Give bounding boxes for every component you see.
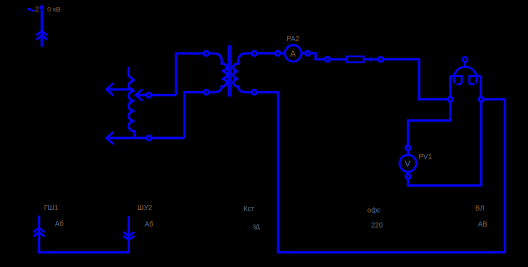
right current arrow (down) (123, 216, 134, 252)
voltmeter PV circle (400, 155, 417, 172)
ammeter left terminal ring (276, 51, 281, 56)
wire after resistor (364, 58, 379, 60)
left current arrow (up) (33, 216, 44, 252)
terminal ring on bottom lead (147, 136, 152, 141)
wire (302, 52, 306, 54)
junction dot (369, 57, 373, 61)
resistor R (347, 56, 364, 62)
svg-text:2: 2 (35, 7, 39, 14)
spark gap right electrode (469, 75, 481, 84)
svg-text:АВ: АВ (478, 222, 488, 229)
wire: left gap terminal down to voltmeter (408, 102, 450, 146)
spark gap left terminal ring (448, 97, 453, 102)
svg-text:А: А (290, 49, 296, 58)
terminal ring on wiper wire (147, 93, 152, 98)
spark gap right lead down (480, 76, 482, 97)
transformer T2 primary terminal rings (204, 51, 209, 56)
svg-text:офс: офс (367, 208, 381, 215)
top-left feeder arrow symbol (36, 6, 47, 47)
spark gap right terminal ring (479, 97, 484, 102)
wire (280, 52, 285, 54)
svg-text:ШУ2: ШУ2 (137, 205, 152, 212)
wire into resistor (330, 58, 347, 60)
wire: variac bottom to transformer primary bottom (185, 92, 204, 138)
svg-text:ГШ1: ГШ1 (44, 205, 58, 212)
spark gap stem (464, 62, 466, 67)
spark gap FV top ball electrode (462, 57, 467, 62)
transformer T2 secondary winding (233, 53, 252, 92)
svg-text:Аб: Аб (145, 220, 154, 228)
spark gap left electrode (450, 75, 461, 84)
svg-text:Аб: Аб (55, 220, 64, 228)
spark gap left lead down (449, 76, 451, 97)
transformer T2 primary winding (209, 53, 227, 92)
ammeter right terminal ring (305, 51, 310, 56)
wire: voltmeter return to right gap terminal (408, 102, 481, 186)
svg-text:РА2: РА2 (287, 36, 300, 43)
terminal ring (378, 57, 383, 62)
label: top-left source glyph (28, 9, 35, 11)
wire (407, 150, 409, 155)
svg-text:220: 220 (371, 223, 383, 230)
spark gap dome (454, 67, 477, 83)
wire (407, 172, 409, 174)
wire: ammeter to resistor with step down (310, 53, 325, 59)
wire: right gap terminal to right-side return bus (257, 92, 505, 252)
voltmeter top terminal ring (406, 146, 411, 151)
svg-text:зд: зд (253, 224, 260, 231)
wire: variac fixed tap to mains (left arrow) (106, 83, 133, 95)
voltmeter bottom terminal ring (406, 174, 411, 179)
transformer T2 secondary terminal rings (252, 51, 257, 56)
wire: wiper to transformer primary top (176, 53, 204, 95)
transformer core (227, 45, 229, 96)
wire: resistor to spark gap left terminal (383, 59, 448, 99)
wire: variac bottom lead with mains arrow (106, 132, 184, 144)
left ground bus (38, 251, 130, 253)
svg-text:0 кВ: 0 кВ (47, 7, 61, 14)
ammeter PA circle (285, 45, 301, 61)
svg-text:V: V (405, 158, 411, 168)
svg-text:РV1: РV1 (419, 154, 432, 161)
svg-text:ВЛ: ВЛ (475, 206, 485, 213)
variac wiper arrow (136, 89, 176, 101)
autotransformer T1 (variac) winding (129, 67, 135, 138)
wire: secondary top to ammeter (257, 52, 276, 54)
terminal ring (325, 57, 330, 62)
svg-text:Кст: Кст (244, 206, 256, 213)
